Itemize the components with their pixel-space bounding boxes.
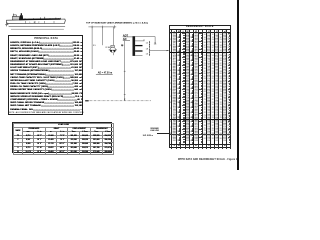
svg-text:1.8: 1.8 <box>146 48 149 50</box>
svg-text:9.5: 9.5 <box>93 45 96 47</box>
svg-text:R 300: R 300 <box>106 47 111 49</box>
svg-text:1.5: 1.5 <box>146 43 149 45</box>
svg-text:1.6: 1.6 <box>146 54 149 56</box>
svg-text:TOP OF MAIN MAST (MAST ARRANGE: TOP OF MAIN MAST (MAST ARRANGEMENT) (+75… <box>86 22 148 25</box>
svg-text:AD = 47.50 m: AD = 47.50 m <box>98 71 112 74</box>
